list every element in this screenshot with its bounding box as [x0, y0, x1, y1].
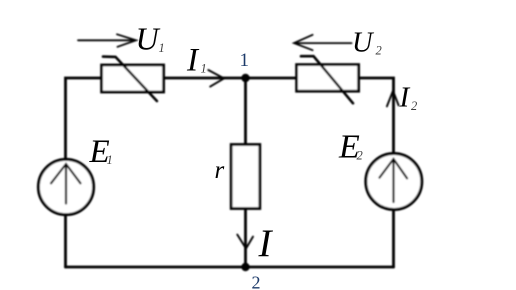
label U1 — [136, 20, 165, 56]
source E1 arrow — [51, 164, 81, 204]
resistor R1 variable slash — [103, 57, 157, 101]
svg-text:U: U — [352, 28, 375, 59]
resistor R1 (variable, top left) — [102, 65, 164, 92]
svg-text:1: 1 — [107, 153, 113, 167]
label E1 — [89, 134, 113, 170]
svg-text:2: 2 — [411, 99, 417, 113]
wire right vertical (E2 top to top-right corner) — [359, 78, 394, 154]
label U2 — [352, 28, 382, 59]
svg-text:r: r — [215, 157, 225, 184]
arrow U1 direction (top left, pointing right) — [78, 34, 136, 47]
arrow U2 direction (top right, pointing left) — [294, 35, 352, 50]
arrow I2 (current up on right wire) — [387, 91, 399, 107]
node label 1 — [240, 50, 250, 71]
resistor R2 variable slash — [301, 56, 353, 103]
label I1 — [186, 42, 207, 78]
svg-text:2: 2 — [376, 43, 382, 57]
svg-text:I: I — [186, 42, 200, 78]
svg-text:2: 2 — [357, 149, 363, 163]
wire node 1 down to resistor r top — [244, 78, 247, 145]
resistor r (middle vertical) — [231, 145, 260, 209]
wire bottom horizontal — [66, 266, 394, 269]
label I2 — [399, 81, 418, 113]
svg-text:I: I — [399, 81, 411, 113]
svg-text:1: 1 — [240, 50, 250, 71]
source E1 (circle with up arrow) — [38, 159, 93, 214]
wire left vertical (top-left corner to E1 top) — [66, 78, 102, 160]
label E2 — [338, 128, 363, 165]
node 2 (junction dot) — [241, 263, 249, 271]
node label 2 — [252, 273, 261, 290]
wire node 1 to resistor R2 left — [246, 77, 298, 80]
arrow I (current down to node 2) — [237, 235, 253, 249]
wire right vertical (bottom corner to E2 bottom) — [392, 210, 395, 267]
arrow I1 (current into node 1, on top wire) — [208, 70, 224, 87]
label r — [215, 157, 225, 184]
resistor R2 (variable, top right) — [297, 65, 359, 92]
wire left vertical (E1 bottom to bottom-left corner) — [64, 215, 67, 268]
node 1 (junction dot) — [241, 74, 249, 82]
svg-text:U: U — [136, 20, 161, 56]
source E2 (circle with up arrow) — [366, 154, 422, 210]
svg-text:I: I — [258, 222, 274, 265]
svg-text:1: 1 — [201, 61, 207, 75]
svg-text:2: 2 — [252, 273, 261, 290]
svg-text:1: 1 — [159, 41, 165, 55]
label I (branch current) — [258, 222, 274, 265]
wire resistor r bottom to node 2 — [244, 209, 247, 268]
wire resistor R1 right to node 1 — [164, 77, 246, 80]
source E2 arrow — [380, 159, 408, 202]
